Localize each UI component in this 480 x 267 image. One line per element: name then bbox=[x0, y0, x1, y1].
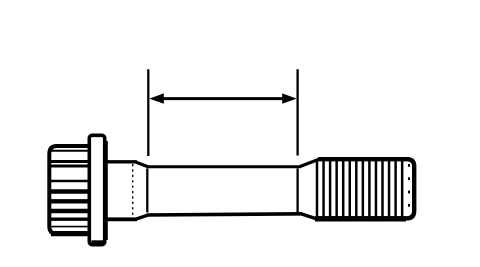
dimension extension line right (lower segment through shank) bbox=[296, 169, 298, 213]
flange inner right edge line bbox=[106, 141, 108, 240]
head facet line 8 bbox=[51, 217, 89, 220]
dimension arrow line bbox=[158, 97, 288, 100]
dimension extension line left (upper segment) bbox=[147, 69, 149, 156]
shank bottom edge bbox=[147, 214, 302, 215]
head bottom edge (thick) bbox=[51, 231, 88, 236]
taper bottom edge (shoulder to shank) bbox=[136, 215, 149, 219]
thread crest lines bbox=[317, 161, 402, 217]
shoulder top edge bbox=[105, 160, 137, 163]
dimension extension line left (lower segment through shank) bbox=[146, 169, 148, 213]
taper top edge (shank to thread) bbox=[300, 159, 319, 166]
bolt head (12-point) outline bbox=[49, 146, 88, 234]
head facet line 1 bbox=[52, 150, 89, 152]
thread runout chamfer line (dotted) bbox=[408, 164, 410, 215]
head facet line 9 bbox=[52, 226, 89, 228]
arrowhead right bbox=[282, 93, 296, 103]
head facet line 4 bbox=[50, 180, 89, 183]
thread section bottom edge (thick) bbox=[315, 216, 406, 221]
dimension extension line right (upper segment) bbox=[296, 69, 298, 155]
shoulder end line (dotted) bbox=[132, 164, 134, 216]
taper bottom edge (shank to thread) bbox=[301, 214, 317, 219]
taper top edge (shoulder to shank) bbox=[136, 162, 149, 167]
shank top edge bbox=[147, 165, 301, 168]
head facet line 2 bbox=[51, 160, 89, 163]
flange (washer face) bbox=[89, 135, 104, 244]
shoulder bottom edge bbox=[105, 217, 137, 221]
threaded section outline bbox=[316, 159, 414, 218]
flange bottom edge (thick) bbox=[92, 240, 104, 246]
head facet line 5 bbox=[50, 189, 89, 193]
head facet line 3 bbox=[51, 165, 89, 168]
arrowhead left bbox=[149, 93, 164, 103]
head facet line 7 bbox=[50, 209, 89, 213]
head facet line 6 bbox=[50, 199, 89, 203]
